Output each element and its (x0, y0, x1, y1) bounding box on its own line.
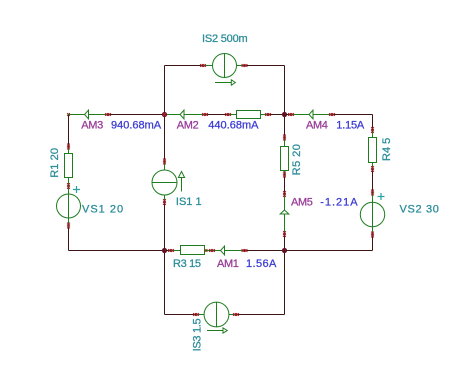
svg-text:440.68mA: 440.68mA (208, 120, 259, 132)
svg-text:R3 15: R3 15 (173, 258, 201, 270)
svg-text:R5 20: R5 20 (291, 144, 303, 176)
svg-text:AM5: AM5 (291, 197, 313, 209)
svg-text:IS1 1: IS1 1 (176, 196, 202, 208)
svg-text:AM3: AM3 (81, 120, 103, 132)
svg-text:AM1: AM1 (217, 258, 239, 270)
svg-text:IS2 500m: IS2 500m (202, 33, 248, 45)
svg-text:R1 20: R1 20 (49, 148, 61, 178)
svg-text:AM2: AM2 (177, 120, 199, 132)
svg-text:IS3 1.5: IS3 1.5 (192, 318, 204, 351)
svg-text:1.15A: 1.15A (336, 120, 365, 132)
svg-text:VS1 20: VS1 20 (82, 204, 124, 216)
svg-text:-1.21A: -1.21A (320, 197, 358, 209)
svg-text:AM4: AM4 (306, 120, 328, 132)
svg-text:VS2 30: VS2 30 (400, 204, 440, 216)
svg-text:1.56A: 1.56A (246, 258, 277, 270)
svg-text:940.68mA: 940.68mA (111, 120, 162, 132)
svg-text:R4 5: R4 5 (381, 138, 393, 161)
